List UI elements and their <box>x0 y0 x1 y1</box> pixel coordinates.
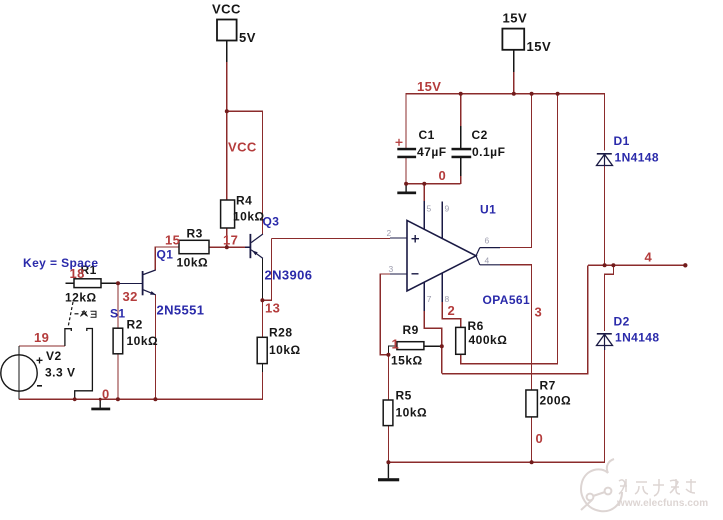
wire node 13 down to R28 <box>261 300 263 337</box>
ground symbol right <box>378 462 399 481</box>
svg-text:C2: C2 <box>472 128 488 142</box>
transistor Q3 2N3906 <box>250 215 312 283</box>
svg-text:R3: R3 <box>187 227 203 241</box>
node VCC junction <box>225 109 229 113</box>
svg-text:C1: C1 <box>419 128 435 142</box>
wire ground rail left node 0 <box>19 364 262 400</box>
wire feedback node 4 loop <box>442 265 588 373</box>
resistor R4 <box>221 194 265 229</box>
wire op-amp pin9 stub <box>441 202 443 239</box>
svg-text:D2: D2 <box>614 315 630 329</box>
wire node 32 to Q1 base <box>118 283 143 285</box>
wire R7 bottom to ground rail <box>531 417 533 462</box>
wire R1 right to node 32 <box>101 282 118 284</box>
switch S1 <box>65 302 126 399</box>
node 2 R9 right <box>440 344 444 348</box>
wire ground net 0 under caps <box>406 183 461 185</box>
svg-text:D1: D1 <box>614 134 630 148</box>
svg-text:17: 17 <box>223 233 238 248</box>
watermark logo <box>581 459 622 511</box>
svg-text:R5: R5 <box>396 389 412 403</box>
svg-text:200Ω: 200Ω <box>540 394 572 408</box>
svg-text:U1: U1 <box>480 203 496 217</box>
wire node 4 output <box>588 264 686 266</box>
wire 15V rail <box>406 94 604 151</box>
source V2 3.3V <box>1 349 76 391</box>
capacitor C1 <box>396 128 447 159</box>
svg-text:OPA561: OPA561 <box>483 293 531 307</box>
svg-text:15V: 15V <box>417 79 441 94</box>
svg-text:VCC: VCC <box>212 2 241 17</box>
svg-text:R7: R7 <box>540 379 556 393</box>
rail dot C2 <box>459 92 463 96</box>
svg-text:5V: 5V <box>239 30 256 45</box>
wire op-amp pin6 up to 15V rail <box>500 94 532 248</box>
wire op-amp -input <box>390 273 407 275</box>
wire R6 bottom to 15V rail <box>461 94 558 364</box>
node 13 <box>260 298 264 302</box>
diode D2 1N4148 <box>597 315 660 351</box>
svg-text:S1: S1 <box>110 307 125 321</box>
svg-text:2N5551: 2N5551 <box>157 303 205 318</box>
wire node 19 V2 to switch <box>19 345 65 347</box>
resistor R3 <box>177 227 210 270</box>
wire node 15 Q1 collector to R3 <box>155 247 179 270</box>
ground symbol under C1 <box>397 184 416 194</box>
node 1 R9 left <box>386 353 390 357</box>
svg-text:7: 7 <box>427 294 432 304</box>
wire Q3 emitter to node 13 <box>261 258 263 300</box>
wire R5 bottom to ground rail <box>387 426 389 463</box>
svg-text:10kΩ: 10kΩ <box>177 256 209 270</box>
svg-text:V2: V2 <box>46 349 62 363</box>
svg-text:R28: R28 <box>269 326 293 340</box>
svg-text:VCC: VCC <box>228 140 257 155</box>
wire node 32 down through R2 to ground <box>117 283 119 328</box>
svg-text:0: 0 <box>536 431 544 446</box>
node 19 rail dot <box>73 397 77 401</box>
wire C2 top lead <box>460 94 462 126</box>
wire D1 anode to node 4 <box>604 166 606 265</box>
svg-text:10kΩ: 10kΩ <box>127 334 159 348</box>
wire VCC junction down to R4 <box>226 111 228 200</box>
wire VCC supply to junction <box>226 41 228 63</box>
svg-text:2: 2 <box>448 303 456 318</box>
wire R4 bottom to node 17 <box>226 228 228 248</box>
wire R3 right to node 17 <box>209 246 227 248</box>
wire node 2 to op-amp +input <box>272 238 390 240</box>
svg-text:0.1µF: 0.1µF <box>472 145 505 159</box>
node 0 caps pin5 <box>422 182 426 186</box>
svg-text:Q1: Q1 <box>157 248 174 262</box>
wire C2 bottom lead <box>460 158 462 176</box>
resistor R6 <box>456 319 508 354</box>
node 0 caps left <box>404 182 408 186</box>
svg-text:6: 6 <box>485 236 490 246</box>
rail dot pin6 <box>530 92 534 96</box>
svg-text:3.3 V: 3.3 V <box>45 366 76 380</box>
svg-text:10kΩ: 10kΩ <box>396 406 428 420</box>
wire C1 bottom lead <box>405 158 407 184</box>
svg-text:R4: R4 <box>236 194 252 208</box>
node 4 D1 <box>603 263 607 267</box>
wire op-amp pin5 to ground net <box>423 184 425 201</box>
svg-text:400kΩ: 400kΩ <box>469 333 508 347</box>
wire R9 left lead <box>388 346 397 355</box>
resistor R9 <box>391 323 424 368</box>
node 4 jog <box>611 263 615 267</box>
svg-text:2N3906: 2N3906 <box>265 268 313 283</box>
wire op-amp pin4 down to R7 <box>500 265 532 390</box>
transistor Q1 2N5551 <box>143 248 205 318</box>
svg-text:1N4148: 1N4148 <box>615 331 659 345</box>
wire node 17 to Q3 base <box>227 246 245 248</box>
resistor R7 <box>526 379 571 417</box>
resistor R1 <box>65 263 101 305</box>
svg-text:Key = Space: Key = Space <box>23 256 98 270</box>
node 0 R2 dot <box>116 397 120 401</box>
wire R9 right lead to node 2 vertical <box>424 345 442 347</box>
svg-text:9: 9 <box>445 204 450 214</box>
resistor R2 <box>113 318 158 354</box>
VCC power symbol <box>212 2 256 46</box>
svg-text:19: 19 <box>34 330 49 345</box>
node 0 R5 <box>386 460 390 464</box>
svg-text:10kΩ: 10kΩ <box>233 210 265 224</box>
diode D1 1N4148 <box>597 134 659 166</box>
node 4 end <box>683 263 687 267</box>
op-amp U1 OPA561 <box>387 203 531 308</box>
wire VCC junction to Q3 collector branch <box>227 111 263 234</box>
node 0 gnd stub dot <box>99 398 102 401</box>
rail dot supply <box>512 92 516 96</box>
wire 15V supply lead <box>513 50 515 72</box>
node 0 R7 <box>530 460 534 464</box>
svg-text:2: 2 <box>387 228 392 238</box>
svg-text:1N4148: 1N4148 <box>615 151 659 165</box>
svg-text:0: 0 <box>439 168 447 183</box>
svg-text:4: 4 <box>485 256 490 266</box>
watermark text <box>619 479 696 496</box>
svg-text:15: 15 <box>165 233 180 248</box>
svg-text:15V: 15V <box>503 11 528 26</box>
svg-text:R6: R6 <box>468 319 484 333</box>
svg-text:12kΩ: 12kΩ <box>65 291 97 305</box>
wire op-amp pin7 to node 2 <box>424 282 442 373</box>
node 0 Q1 dot <box>153 397 157 401</box>
svg-text:+: + <box>36 354 44 368</box>
wire R28 bottom lead <box>261 364 263 372</box>
wire V2 leads <box>18 346 20 399</box>
svg-text:15V: 15V <box>527 39 552 54</box>
wire node 13 jog <box>262 239 271 301</box>
svg-text:1: 1 <box>392 337 400 352</box>
svg-text:R9: R9 <box>403 323 419 337</box>
15V power symbol <box>502 11 551 55</box>
svg-text:5: 5 <box>427 204 432 214</box>
wire Q1 emitter down to ground <box>154 295 156 400</box>
wire -input node down to R5 <box>387 355 389 400</box>
ground symbol left <box>91 399 110 410</box>
svg-text:www.elecfuns.com: www.elecfuns.com <box>616 498 708 509</box>
svg-text:3: 3 <box>389 264 394 274</box>
svg-text:32: 32 <box>123 289 138 304</box>
wire node 18 R1 left stub <box>66 282 75 284</box>
svg-text:10kΩ: 10kΩ <box>269 343 301 357</box>
svg-text:3: 3 <box>535 305 543 320</box>
wire node 4 jog to D2 <box>605 265 614 331</box>
svg-text:4: 4 <box>645 250 653 265</box>
wire ground rail right <box>388 348 604 462</box>
resistor R28 <box>257 326 300 364</box>
wire op-amp pin8 to R6 top <box>442 273 460 327</box>
resistor R5 <box>383 389 427 426</box>
capacitor C2 <box>452 128 506 159</box>
svg-text:15kΩ: 15kΩ <box>391 354 423 368</box>
svg-text:47µF: 47µF <box>417 145 447 159</box>
node 32 <box>116 281 120 285</box>
svg-text:13: 13 <box>265 301 280 316</box>
node 17 <box>225 245 229 249</box>
svg-text:Q3: Q3 <box>263 215 280 229</box>
rail dot R6 <box>556 92 560 96</box>
svg-text:R2: R2 <box>127 318 143 332</box>
svg-text:0: 0 <box>102 386 110 401</box>
